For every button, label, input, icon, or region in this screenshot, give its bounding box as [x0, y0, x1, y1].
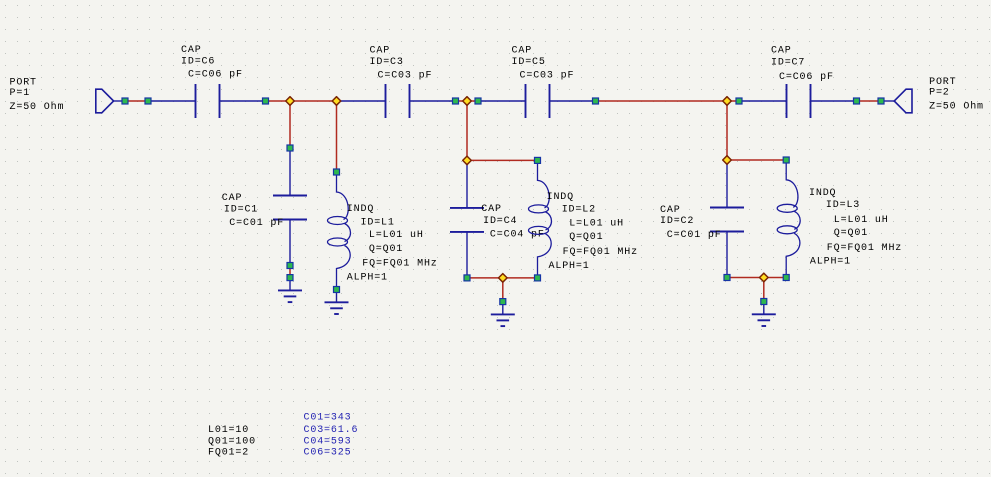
svg-text:Q=Q01: Q=Q01: [369, 244, 403, 255]
port P1: [96, 89, 114, 113]
svg-text:ALPH=1: ALPH=1: [347, 273, 388, 284]
wire: [596, 100, 728, 102]
inductor L2 value labels: [547, 192, 638, 272]
wire: [726, 101, 728, 160]
svg-text:P=1: P=1: [10, 88, 31, 99]
svg-text:P=2: P=2: [929, 88, 950, 99]
svg-text:L=L01 uH: L=L01 uH: [369, 230, 424, 241]
pin: [535, 157, 541, 163]
svg-text:FQ01=2: FQ01=2: [208, 448, 249, 459]
svg-text:L01=10: L01=10: [208, 425, 249, 436]
variable labels C01 C03 C04 C06: [304, 413, 359, 459]
wire: [289, 101, 291, 148]
svg-text:Z=50 Ohm: Z=50 Ohm: [929, 101, 984, 113]
ground: [278, 280, 302, 303]
wire: [114, 100, 125, 102]
pin: [145, 98, 151, 104]
svg-text:ID=C5: ID=C5: [512, 57, 546, 68]
svg-text:Z=50 Ohm: Z=50 Ohm: [10, 101, 65, 113]
pin: [334, 287, 340, 293]
inductor L1 value labels: [347, 204, 438, 284]
inductor L2: [529, 160, 552, 278]
wire: [467, 277, 503, 279]
svg-text:Q=Q01: Q=Q01: [569, 232, 603, 243]
svg-text:C=C01 pF: C=C01 pF: [667, 230, 722, 241]
svg-text:C03=61.6: C03=61.6: [304, 425, 359, 436]
svg-text:INDQ: INDQ: [547, 192, 574, 203]
svg-text:C=C03 pF: C=C03 pF: [378, 71, 433, 82]
pin: [783, 275, 789, 281]
wire: [266, 100, 291, 102]
wire: [727, 100, 739, 102]
wire: [456, 100, 468, 102]
pin: [287, 263, 293, 269]
capacitor C3: [338, 84, 456, 118]
pin: [464, 275, 470, 281]
svg-text:C06=325: C06=325: [304, 448, 352, 459]
capacitor C1 value labels: [222, 193, 284, 229]
capacitor C2: [710, 160, 744, 278]
port P2 labels: [929, 77, 984, 113]
wire: [764, 277, 786, 279]
inductor L1: [328, 172, 351, 290]
inductor L3 value labels: [809, 188, 902, 268]
inductor L3: [777, 160, 800, 277]
pin: [287, 275, 293, 281]
svg-text:ID=C6: ID=C6: [181, 56, 215, 67]
svg-text:CAP: CAP: [660, 205, 681, 216]
svg-text:FQ=FQ01 MHz: FQ=FQ01 MHz: [362, 258, 437, 269]
wire: [289, 266, 291, 278]
svg-text:ALPH=1: ALPH=1: [549, 261, 590, 272]
pin: [535, 275, 541, 281]
port P1 labels: [10, 77, 65, 113]
svg-text:CAP: CAP: [181, 45, 202, 56]
pin: [263, 98, 269, 104]
junction node: [499, 274, 508, 283]
svg-text:Q01=100: Q01=100: [208, 436, 256, 447]
pin: [854, 98, 860, 104]
ground: [325, 292, 349, 315]
pin: [500, 299, 506, 305]
variable labels L01 Q01 FQ01: [208, 425, 256, 459]
wire: [503, 277, 538, 279]
svg-text:CAP: CAP: [512, 46, 533, 57]
svg-text:CAP: CAP: [222, 193, 243, 204]
pin: [122, 98, 128, 104]
pin: [453, 98, 459, 104]
capacitor C4: [450, 160, 484, 278]
wire: [125, 100, 148, 102]
wire: [502, 278, 504, 302]
svg-text:PORT: PORT: [929, 77, 956, 88]
junction node: [463, 156, 472, 165]
svg-text:PORT: PORT: [10, 77, 37, 88]
svg-text:ID=C7: ID=C7: [771, 57, 805, 68]
svg-text:INDQ: INDQ: [809, 188, 836, 199]
svg-text:Q=Q01: Q=Q01: [834, 228, 868, 239]
wire: [763, 278, 765, 302]
capacitor C7: [739, 84, 857, 118]
wire: [466, 101, 468, 160]
svg-text:CAP: CAP: [370, 46, 391, 57]
svg-text:ID=L2: ID=L2: [562, 204, 596, 215]
svg-text:ID=L3: ID=L3: [826, 200, 860, 211]
pin: [783, 157, 789, 163]
wire: [336, 101, 338, 172]
junction node: [723, 97, 732, 106]
capacitor C5: [478, 84, 596, 118]
ground: [752, 304, 776, 327]
capacitor C5 value labels: [512, 46, 575, 82]
ground: [491, 304, 515, 327]
capacitor C1: [273, 148, 307, 266]
svg-text:L=L01 uH: L=L01 uH: [569, 219, 624, 230]
svg-text:FQ=FQ01 MHz: FQ=FQ01 MHz: [827, 243, 902, 254]
svg-text:ID=C1: ID=C1: [224, 205, 258, 216]
svg-text:C=C04 pF: C=C04 pF: [490, 230, 545, 241]
junction node: [463, 97, 472, 106]
wire: [467, 100, 478, 102]
wire: [881, 100, 894, 102]
junction node: [332, 97, 341, 106]
svg-text:L=L01 uH: L=L01 uH: [834, 215, 889, 226]
wire: [290, 100, 337, 102]
svg-text:ID=L1: ID=L1: [361, 218, 395, 229]
svg-text:C01=343: C01=343: [304, 413, 352, 424]
wire: [857, 100, 882, 102]
pin: [736, 98, 742, 104]
svg-text:C=C01 pF: C=C01 pF: [229, 218, 284, 229]
pin: [878, 98, 884, 104]
pin: [724, 275, 730, 281]
junction node: [760, 273, 769, 282]
svg-text:FQ=FQ01 MHz: FQ=FQ01 MHz: [563, 247, 638, 258]
wire: [727, 159, 786, 161]
pin: [334, 169, 340, 175]
svg-text:C=C06 pF: C=C06 pF: [188, 70, 243, 81]
port P2: [894, 89, 912, 113]
capacitor C3 value labels: [370, 46, 433, 82]
svg-text:ALPH=1: ALPH=1: [810, 257, 851, 268]
pin: [287, 145, 293, 151]
wire: [727, 277, 764, 279]
capacitor C2 value labels: [660, 205, 722, 241]
capacitor C4 value labels: [481, 204, 544, 241]
svg-text:CAP: CAP: [481, 204, 502, 215]
svg-text:ID=C3: ID=C3: [370, 57, 404, 68]
capacitor C6 value labels: [181, 45, 243, 81]
pin: [593, 98, 599, 104]
junction node: [723, 156, 732, 165]
svg-text:ID=C4: ID=C4: [483, 216, 517, 227]
svg-text:ID=C2: ID=C2: [660, 216, 694, 227]
svg-text:CAP: CAP: [771, 45, 792, 56]
wire: [467, 159, 538, 161]
capacitor C6: [148, 84, 266, 118]
pin: [475, 98, 481, 104]
capacitor C7 value labels: [771, 45, 834, 83]
junction node: [286, 97, 295, 106]
svg-text:C=C06 pF: C=C06 pF: [779, 72, 834, 83]
svg-text:C04=593: C04=593: [304, 436, 352, 447]
svg-text:C=C03 pF: C=C03 pF: [520, 71, 575, 82]
pin: [761, 299, 767, 305]
svg-text:INDQ: INDQ: [347, 204, 374, 215]
